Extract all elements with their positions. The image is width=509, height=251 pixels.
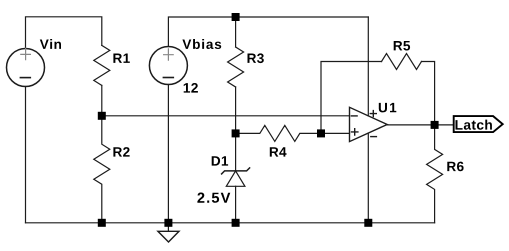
resistor R5 xyxy=(382,54,422,70)
wire top-middle from Vbias to op-amp V+ xyxy=(168,17,368,47)
op-amp inverting input minus sign xyxy=(351,115,357,117)
wire top-left from Vin to R1 xyxy=(26,17,102,49)
value label 12 xyxy=(184,83,198,93)
net flag Latch xyxy=(454,116,503,132)
Vbias minus sign xyxy=(163,77,173,79)
voltage source Vbias xyxy=(149,47,187,85)
label R3 xyxy=(248,53,264,63)
wire op-amp V- supply pin xyxy=(367,133,369,223)
resistor R4 xyxy=(236,125,321,141)
op-amp non-inverting input plus sign xyxy=(352,129,358,135)
voltage source Vin xyxy=(7,49,45,87)
wire middle node from R1/R2 to op-amp inverting input xyxy=(102,115,350,117)
ground xyxy=(158,223,179,242)
Vin minus sign xyxy=(20,77,30,79)
op-amp V- minus sign xyxy=(371,136,377,138)
node junction op-amp V- bottom rail xyxy=(364,219,372,227)
op-amp U1 xyxy=(350,107,388,141)
value label 2.5V xyxy=(197,193,230,203)
resistor R1 xyxy=(94,45,110,85)
wire feedback riser to R5 xyxy=(321,62,382,134)
resistor R6 xyxy=(427,125,443,223)
Vbias plus sign xyxy=(164,49,174,60)
label Vin xyxy=(40,39,61,49)
label U1 xyxy=(379,103,397,113)
op-amp V+ plus sign xyxy=(370,111,376,117)
label Vbias xyxy=(182,39,221,49)
resistor R3 xyxy=(228,47,244,87)
node junction R3/D1/R4 xyxy=(232,129,240,137)
node junction R1/R2/middle wire xyxy=(98,112,106,120)
wire R5 right to output node xyxy=(422,62,435,125)
wire op-amp V+ supply pin xyxy=(367,17,369,116)
label R4 xyxy=(270,147,287,156)
label R5 xyxy=(394,41,410,51)
wire Vin bottom lead xyxy=(25,87,27,223)
wire Vbias bottom lead xyxy=(167,85,169,223)
wire R3 bottom lead xyxy=(235,87,237,133)
label R1 xyxy=(113,54,129,63)
node junction D1 bottom rail xyxy=(232,219,240,227)
resistor R2 xyxy=(94,116,110,223)
wire R1 bottom lead xyxy=(101,85,103,115)
diode D1 (zener) xyxy=(222,133,250,222)
node junction ground bottom rail xyxy=(164,219,172,227)
node junction R2 bottom rail xyxy=(98,219,106,227)
node junction R3 top rail xyxy=(232,13,240,21)
label D1 xyxy=(212,156,228,165)
wire op-amp output to Latch xyxy=(387,124,454,126)
label R6 xyxy=(447,162,463,172)
node junction R4/R5/non-inverting input xyxy=(317,129,325,137)
wire bottom rail xyxy=(26,222,435,224)
node junction output/R5/R6 xyxy=(431,121,439,129)
wire R4 to op-amp non-inverting input xyxy=(321,132,350,134)
label R2 xyxy=(113,147,129,157)
wire R3 top lead xyxy=(235,17,237,47)
Vin plus sign xyxy=(21,48,31,59)
